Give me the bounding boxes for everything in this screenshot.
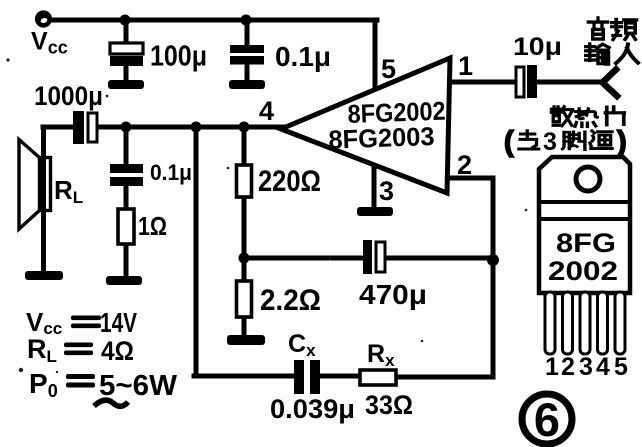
svg-text:8FG: 8FG bbox=[556, 228, 616, 258]
svg-text:P0: P0 bbox=[29, 368, 58, 401]
svg-text:14V: 14V bbox=[100, 307, 137, 338]
svg-text:Vcc: Vcc bbox=[31, 28, 68, 58]
svg-text:4Ω: 4Ω bbox=[101, 336, 134, 366]
svg-text:220Ω: 220Ω bbox=[258, 165, 321, 198]
svg-text:4: 4 bbox=[259, 96, 274, 126]
svg-text:1: 1 bbox=[458, 51, 473, 81]
svg-text:(: ( bbox=[504, 126, 514, 158]
svg-text:0.039μ: 0.039μ bbox=[270, 394, 355, 424]
svg-text:3: 3 bbox=[579, 353, 593, 381]
svg-text:2.2Ω: 2.2Ω bbox=[260, 284, 321, 317]
svg-text:1Ω: 1Ω bbox=[138, 211, 167, 241]
svg-text:): ) bbox=[617, 126, 627, 158]
svg-text:2002: 2002 bbox=[548, 256, 618, 286]
svg-text:3: 3 bbox=[543, 128, 557, 156]
svg-text:RL: RL bbox=[27, 334, 57, 366]
svg-text:Cx: Cx bbox=[288, 330, 316, 360]
svg-text:4: 4 bbox=[596, 353, 610, 381]
svg-text:5: 5 bbox=[381, 54, 396, 84]
svg-text:0.1μ: 0.1μ bbox=[275, 41, 331, 72]
svg-text:5~6W: 5~6W bbox=[99, 370, 178, 402]
svg-text:3: 3 bbox=[379, 176, 394, 206]
svg-text:1000μ: 1000μ bbox=[34, 81, 103, 111]
svg-text:2: 2 bbox=[561, 353, 575, 381]
svg-text:470μ: 470μ bbox=[359, 279, 427, 310]
svg-text:8FG2003: 8FG2003 bbox=[328, 121, 435, 155]
svg-text:Rx: Rx bbox=[367, 340, 395, 370]
svg-text:6: 6 bbox=[534, 393, 560, 446]
svg-text:33Ω: 33Ω bbox=[365, 390, 413, 420]
svg-text:2: 2 bbox=[457, 150, 472, 180]
svg-text:10μ: 10μ bbox=[513, 33, 562, 61]
svg-text:0.1μ: 0.1μ bbox=[150, 160, 192, 185]
svg-text:100μ: 100μ bbox=[150, 41, 207, 73]
svg-text:RL: RL bbox=[54, 175, 83, 207]
svg-text:5: 5 bbox=[614, 353, 628, 381]
svg-text:1: 1 bbox=[545, 353, 559, 381]
